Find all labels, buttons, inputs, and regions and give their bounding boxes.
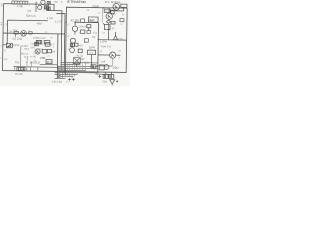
svg-text:TO: TO [27, 9, 32, 13]
svg-text:5K 2n2: 5K 2n2 [13, 37, 23, 41]
svg-text:25a: 25a [102, 79, 107, 83]
svg-text:1.0%: 1.0% [100, 40, 107, 44]
svg-text:2SB: 2SB [40, 56, 45, 60]
svg-text:BAT: BAT [90, 18, 96, 22]
svg-text:470k: 470k [17, 4, 24, 8]
svg-text:ST: ST [81, 57, 85, 61]
svg-text:270: 270 [118, 37, 123, 41]
svg-text:2SA 49: 2SA 49 [79, 24, 88, 28]
svg-text:4 LW: 4 LW [47, 16, 54, 20]
svg-text:Tem 1%: Tem 1% [101, 44, 112, 48]
svg-text:BB: BB [54, 0, 58, 4]
svg-text:o.1: o.1 [39, 42, 43, 46]
svg-text:GB8: GB8 [93, 4, 99, 8]
svg-text:27a: 27a [89, 51, 94, 55]
svg-text:PA1: PA1 [24, 47, 29, 51]
svg-text:IF.TRNSFMR: IF.TRNSFMR [67, 0, 87, 4]
svg-text:kc9: kc9 [24, 55, 29, 59]
svg-text:1·8·1 02: 1·8·1 02 [51, 80, 62, 84]
svg-text:75): 75) [14, 60, 18, 64]
svg-text:5CA: 5CA [13, 43, 19, 47]
svg-text:25B: 25B [30, 45, 35, 49]
svg-text:JOD: JOD [113, 66, 120, 70]
svg-text:+9V: +9V [36, 22, 41, 26]
svg-text:b20: b20 [78, 43, 83, 47]
svg-text:TO: TO [30, 42, 34, 46]
svg-text:5.175: 5.175 [55, 19, 63, 23]
svg-text:SW DA: SW DA [26, 14, 36, 18]
svg-text:Lati: Lati [101, 59, 106, 63]
svg-text:PL 02: PL 02 [15, 72, 23, 76]
svg-text:BE: BE [92, 35, 96, 39]
svg-text:0C44·B: 0C44·B [111, 0, 121, 4]
svg-text:1N914 4u7: 1N914 4u7 [33, 36, 46, 40]
svg-text:25C: 25C [105, 0, 110, 4]
svg-text:AT 201: AT 201 [70, 18, 80, 22]
svg-text:45: 45 [113, 12, 117, 16]
svg-text:EF2: EF2 [47, 60, 52, 64]
svg-text:EPA: EPA [89, 45, 95, 49]
svg-text:17a: 17a [92, 31, 97, 35]
svg-text:+|-40: +|-40 [30, 54, 37, 58]
